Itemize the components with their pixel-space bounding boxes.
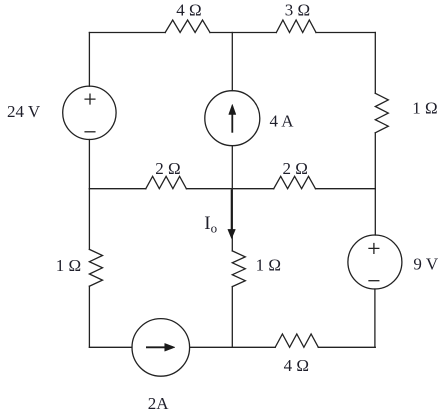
voltage source V2 9V circle: [348, 235, 402, 289]
V1 plus sign: [85, 94, 95, 104]
V1 minus sign: [85, 131, 95, 133]
V2 plus sign: [369, 244, 379, 254]
wire top-left segment: [89, 32, 165, 34]
wire middle vertical bottom: [231, 287, 233, 348]
wire left vertical upper: [88, 33, 90, 87]
svg-text:24 V: 24 V: [7, 102, 41, 121]
wire right vertical middle: [374, 133, 376, 189]
V2 minus sign: [369, 280, 379, 282]
svg-text:1 Ω: 1 Ω: [56, 256, 81, 275]
voltage source V1 24V circle: [63, 86, 116, 139]
svg-text:Io: Io: [204, 213, 217, 236]
svg-text:1 Ω: 1 Ω: [256, 256, 281, 275]
wire right vertical to 9V: [374, 189, 376, 235]
resistor R3 1Ω right zigzag: [375, 93, 388, 133]
svg-text:2 Ω: 2 Ω: [155, 159, 180, 178]
wire top-middle segment: [210, 32, 276, 34]
wire bottom-right segment: [318, 346, 375, 348]
wire left vertical bottom: [88, 286, 90, 347]
wire middle bus right segment: [316, 188, 376, 190]
wire right vertical bottom: [374, 289, 376, 347]
wire middle vertical below middle bus: [231, 189, 233, 251]
resistor R5 1Ω left zigzag: [89, 249, 102, 286]
resistor R2 3Ω top zigzag: [276, 20, 316, 33]
svg-text:2 Ω: 2 Ω: [283, 159, 308, 178]
resistor R1 4Ω top zigzag: [165, 20, 210, 33]
svg-text:2A: 2A: [148, 394, 170, 413]
wire middle vertical upper: [231, 33, 233, 91]
wire top-right segment: [316, 32, 375, 34]
wire middle bus left segment: [89, 188, 145, 190]
resistor R7 4Ω bottom zigzag: [275, 334, 318, 347]
wire bottom-middle segment: [190, 346, 276, 348]
Io current arrow on middle branch: [228, 190, 236, 239]
wire bottom-left segment: [89, 346, 131, 348]
wire left vertical middle: [88, 140, 90, 189]
svg-text:3 Ω: 3 Ω: [285, 1, 310, 20]
wire left vertical lower: [88, 189, 90, 250]
svg-text:9 V: 9 V: [413, 254, 438, 273]
resistor R4b 2Ω right zigzag: [274, 176, 316, 188]
current source I1 4A arrow: [229, 104, 236, 132]
wire middle vertical to middle bus: [231, 146, 233, 189]
wire middle bus center segment: [186, 188, 273, 190]
current source I2 2A arrow: [146, 343, 175, 351]
wire right vertical upper: [374, 33, 376, 94]
resistor R4a 2Ω left zigzag: [146, 176, 187, 188]
current source I2 2A circle: [132, 319, 190, 377]
svg-text:4 A: 4 A: [269, 112, 294, 131]
svg-text:4 Ω: 4 Ω: [176, 1, 201, 20]
svg-text:4 Ω: 4 Ω: [284, 356, 309, 375]
svg-text:1 Ω: 1 Ω: [412, 99, 437, 118]
resistor R6 1Ω middle zigzag: [232, 251, 245, 287]
current source I1 4A circle: [205, 91, 260, 146]
